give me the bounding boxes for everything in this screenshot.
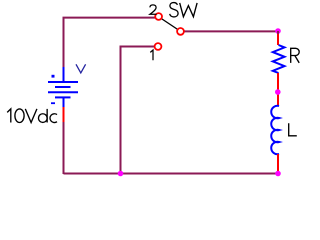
label V (battery name) bbox=[76, 64, 86, 73]
wire from switch pin 1 down to bottom net bbox=[121, 47, 155, 174]
glyph 0 of 10Vdc bbox=[15, 109, 24, 123]
node C junction dot (bottom right) bbox=[275, 171, 281, 177]
battery plate long bbox=[48, 91, 78, 93]
glyph S of SW bbox=[170, 3, 178, 17]
battery plate short bottom bbox=[55, 96, 71, 98]
glyph c of 10Vdc bbox=[50, 114, 57, 123]
battery V1 top lead (blue) bbox=[63, 67, 65, 82]
inductor L bottom pin (red) bbox=[277, 154, 279, 172]
glyph 1 of 10Vdc bbox=[7, 109, 11, 123]
wire from switch common to node A bbox=[184, 30, 278, 32]
label 10Vdc bbox=[7, 109, 57, 123]
pin segment between R and L (red) bbox=[277, 73, 279, 106]
label R bbox=[291, 48, 300, 63]
wire top from battery to switch pin 2 bbox=[64, 18, 156, 68]
wire from battery minus to bottom net bbox=[63, 121, 65, 174]
battery minus mark bbox=[51, 102, 55, 104]
resistor R top pin (red) bbox=[277, 31, 279, 34]
battery plate long top bbox=[48, 81, 78, 83]
label SW bbox=[170, 3, 197, 17]
resistor R zigzag bbox=[273, 45, 285, 73]
label 2 bbox=[150, 5, 157, 14]
node B junction dot (between R and L) bbox=[275, 89, 281, 95]
battery bottom stem (blue) bbox=[63, 97, 65, 107]
glyph d of 10Vdc bbox=[38, 114, 47, 123]
label 1 bbox=[150, 50, 153, 60]
glyph W of SW bbox=[180, 3, 197, 17]
switch pin 1 terminal circle bbox=[155, 43, 162, 50]
wire bottom net bbox=[64, 173, 279, 175]
switch pin 2 terminal circle bbox=[155, 13, 162, 20]
node A junction dot (top right) bbox=[275, 28, 281, 34]
battery bottom pin (red) bbox=[63, 107, 65, 122]
battery plate short bbox=[55, 86, 71, 88]
junction dot bottom net bbox=[118, 171, 124, 177]
switch blade (black) bbox=[161, 18, 179, 30]
inductor L coil bbox=[271, 106, 279, 154]
battery plus mark bbox=[52, 75, 55, 78]
glyph V of 10Vdc bbox=[25, 109, 37, 123]
switch common terminal circle bbox=[177, 28, 184, 35]
label L bbox=[289, 123, 297, 136]
